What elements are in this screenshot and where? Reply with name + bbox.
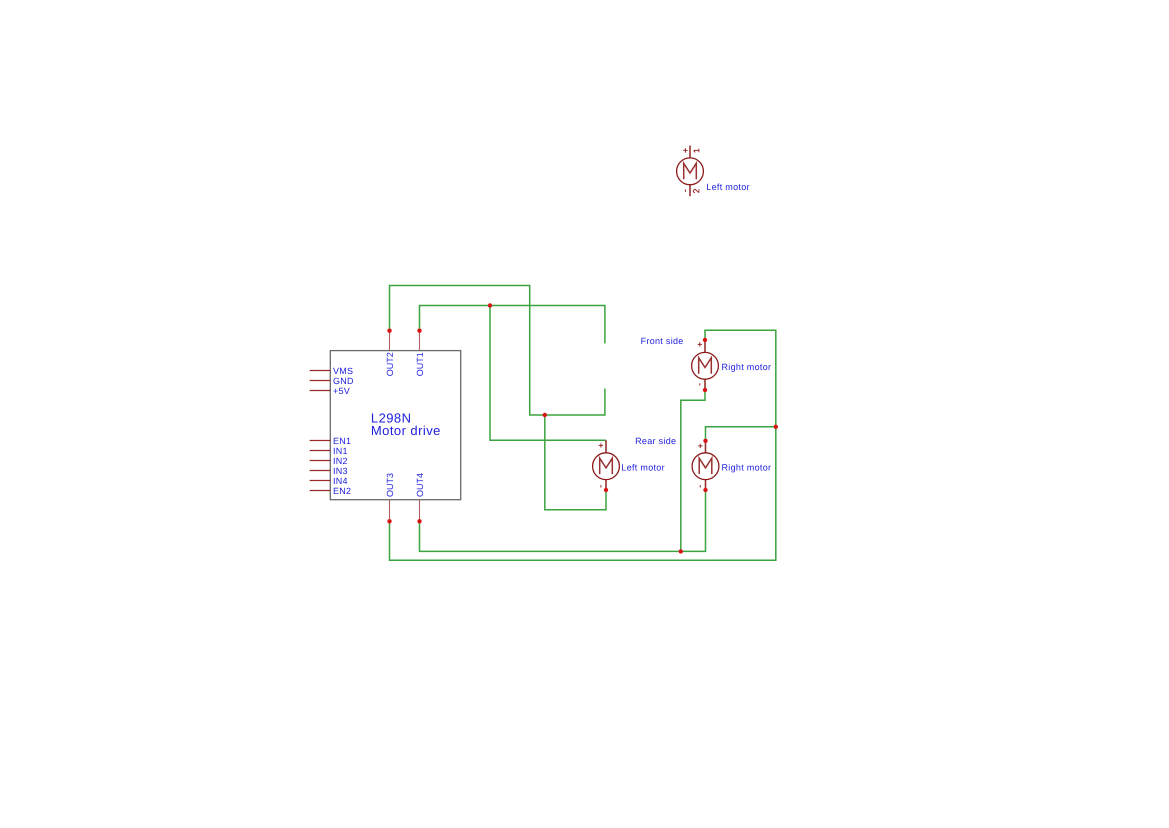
wire OUT1 net: up over to dangling end xyxy=(420,306,605,344)
svg-text:OUT1: OUT1 xyxy=(415,352,425,376)
pin 2 stub xyxy=(689,185,691,196)
pin OUT4 stub xyxy=(419,500,421,522)
svg-text:Left motor: Left motor xyxy=(621,462,665,472)
svg-text:Right motor: Right motor xyxy=(722,462,772,472)
svg-text:Motor drive: Motor drive xyxy=(371,423,441,438)
pin 1 stub xyxy=(605,440,607,453)
M glyph xyxy=(699,358,712,374)
motor M1 (isolated Left motor) xyxy=(677,146,750,197)
wire branch right rail to rear-right motor plus xyxy=(706,427,776,441)
wire OUT2 net: up over to dangling end xyxy=(390,286,605,416)
pin GND xyxy=(310,380,331,382)
svg-text:IN3: IN3 xyxy=(333,466,348,476)
minus mark xyxy=(699,485,701,487)
svg-text:Front side: Front side xyxy=(641,336,684,346)
motor M2 (front Right motor) xyxy=(692,340,772,390)
junction dot right rail xyxy=(774,425,778,429)
svg-text:Left motor: Left motor xyxy=(706,182,750,192)
pin EN2 xyxy=(310,490,331,492)
minus mark (rotated) xyxy=(684,189,686,191)
svg-text:EN2: EN2 xyxy=(333,486,351,496)
M glyph xyxy=(600,458,613,474)
plus mark xyxy=(698,444,702,448)
junction dot OUT1 xyxy=(417,329,421,333)
svg-text:EN1: EN1 xyxy=(333,436,351,446)
motor M3 (rear Left motor) xyxy=(593,440,665,490)
junction dot bottom rail xyxy=(679,549,683,553)
junction dot front-right motor minus xyxy=(703,388,707,392)
motor circle xyxy=(677,158,704,185)
junction dot net OUT1 branch xyxy=(488,303,492,307)
pin 1 stub xyxy=(704,340,706,353)
pin 1 stub xyxy=(705,441,707,453)
svg-text:Right motor: Right motor xyxy=(722,362,772,372)
svg-text:Rear side: Rear side xyxy=(635,436,676,446)
pin IN1 xyxy=(310,450,331,452)
svg-text:OUT3: OUT3 xyxy=(385,473,395,497)
wire branch front-right motor minus down to OUT4 rail xyxy=(681,390,705,551)
svg-text:+5V: +5V xyxy=(333,386,350,396)
pin IN2 xyxy=(310,460,331,462)
junction dot net OUT2 branch xyxy=(543,413,547,417)
plus mark xyxy=(698,342,702,346)
pin number 2 xyxy=(693,189,699,193)
svg-text:IN4: IN4 xyxy=(333,476,348,486)
M glyph xyxy=(699,458,712,474)
pin IN4 xyxy=(310,480,331,482)
junction dot OUT3 xyxy=(387,519,391,523)
minus mark xyxy=(699,383,701,385)
pin 2 stub xyxy=(605,480,607,491)
junction dot rear-left motor minus xyxy=(604,488,608,492)
pin OUT1 stub xyxy=(419,331,421,351)
IC U1 L298N box xyxy=(330,351,460,500)
plus mark xyxy=(683,148,687,152)
junction dot rear-right motor minus xyxy=(703,488,707,492)
svg-text:IN1: IN1 xyxy=(333,446,348,456)
pin EN1 xyxy=(310,440,331,442)
pin OUT3 stub xyxy=(389,500,391,522)
junction dot rear-right motor plus xyxy=(703,439,707,443)
wire OUT4 net: bottom rail to rear-right motor minus xyxy=(420,490,706,551)
motor circle xyxy=(692,352,719,379)
motor circle xyxy=(692,453,719,480)
junction dot front-right motor plus xyxy=(703,338,707,342)
junction dot OUT2 xyxy=(387,329,391,333)
wire OUT1 branch to rear-left motor plus xyxy=(490,306,606,441)
svg-text:IN2: IN2 xyxy=(333,456,348,466)
pin 1 stub xyxy=(689,146,691,159)
pin +5V xyxy=(310,390,331,392)
plus mark xyxy=(599,443,603,447)
pin VMS xyxy=(310,370,331,372)
wire OUT2 branch to rear-left motor minus xyxy=(545,415,606,510)
junction dot OUT4 xyxy=(417,519,421,523)
wire OUT3 net: bottom rail up right side to front-right motor plus xyxy=(390,330,776,560)
svg-text:VMS: VMS xyxy=(333,366,353,376)
svg-text:GND: GND xyxy=(333,376,354,386)
pin number 1 xyxy=(694,149,699,153)
minus mark xyxy=(600,485,602,487)
pin OUT2 stub xyxy=(389,331,391,351)
motor M4 (rear Right motor) xyxy=(692,441,771,490)
pin IN3 xyxy=(310,470,331,472)
pin 2 stub xyxy=(704,379,706,390)
svg-text:OUT2: OUT2 xyxy=(385,352,395,376)
motor circle xyxy=(593,453,620,480)
M glyph xyxy=(684,163,697,179)
svg-text:OUT4: OUT4 xyxy=(415,473,425,497)
pin 2 stub xyxy=(705,480,707,491)
